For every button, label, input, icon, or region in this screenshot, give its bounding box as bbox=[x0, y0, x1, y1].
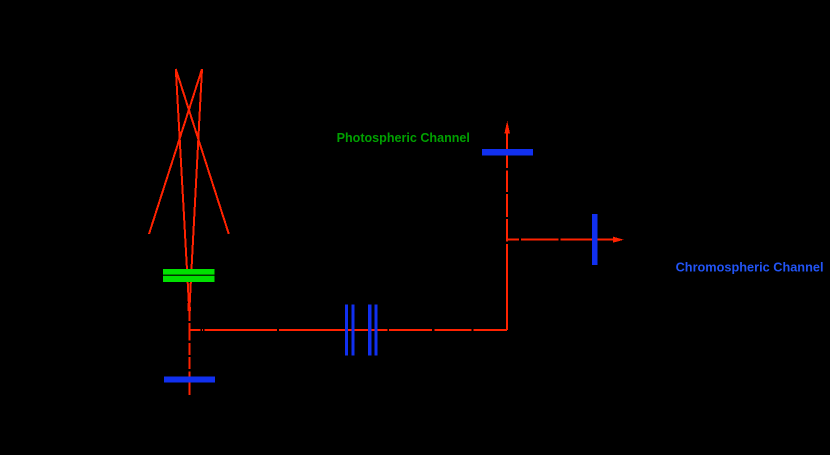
arrow right chromospheric bbox=[613, 237, 624, 243]
arrow up photospheric bbox=[504, 121, 510, 134]
ray inner left bbox=[176, 69, 190, 311]
ray marginal right-to-left bbox=[149, 69, 202, 234]
wire vertical right bbox=[506, 128, 508, 330]
blue collimator bar 4 bbox=[374, 304, 377, 355]
svg-text:Photospheric Channel: Photospheric Channel bbox=[337, 130, 470, 145]
ray marginal left-to-right bbox=[176, 69, 229, 234]
blue collimator bar 1 bbox=[345, 304, 348, 355]
blue collimator bar 3 bbox=[368, 304, 371, 355]
focus blob bbox=[187, 303, 191, 311]
green filter etalon bbox=[163, 269, 215, 282]
blue lens bottom-left bbox=[164, 376, 215, 382]
wire branch chromospheric bbox=[507, 239, 614, 241]
svg-text:Chromospheric Channel: Chromospheric Channel bbox=[676, 260, 824, 275]
wire horizontal main bbox=[189, 329, 507, 331]
ray inner right bbox=[189, 69, 202, 311]
blue lens photospheric bbox=[482, 149, 533, 156]
wire vertical below focus bbox=[188, 309, 190, 395]
blue collimator bar 2 bbox=[351, 304, 354, 355]
blue lens chromospheric bbox=[592, 214, 598, 265]
